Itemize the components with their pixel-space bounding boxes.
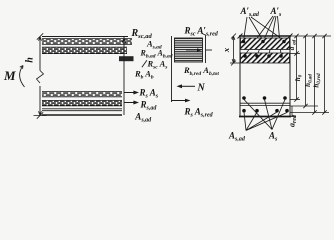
leader fan from As,ad label [244,112,287,131]
beam top edge [42,36,128,38]
top strip 2 : original compression steel [42,47,127,53]
bottom strip 3 : original tension steel [42,92,122,97]
break zigzag on h line [37,71,44,84]
right side extension lines [290,36,331,113]
top strip 1 : additional compression layer [42,39,132,45]
h top arrowhead [37,33,43,40]
old bottom interface double line [240,102,290,104]
section outline [240,36,290,117]
leader fan from A's,ad [244,17,285,41]
anchor line of Rsc A's,red [202,34,206,64]
h bottom arrowhead [34,111,47,118]
dimension line h0,red [312,34,316,115]
tension rebar dots row 2 (As,ad) [242,109,289,113]
leader fan from As label [244,100,285,130]
cut face line [171,36,173,102]
small arrow inside block [186,48,202,52]
beam bottom edge [42,114,122,116]
svg-text:x: x [221,47,231,53]
dimension line h0,ad [303,34,307,108]
black stub of compression bar R_sc As [119,56,134,61]
x dimension (compression depth) on left of section [230,34,240,66]
moment arrow M arc [20,66,25,88]
dimension line h0 [294,34,298,102]
double interface line [42,108,122,110]
force arrow Rs As (tension, original) [124,91,139,95]
corner dimension ticks on top edge [238,34,293,39]
a_red dimension at bottom right [290,106,296,117]
compression band 2 (original zone with A's) [241,53,290,63]
tension rebar dots row 1 (As) [242,96,287,100]
leader fan from A's [245,16,281,55]
svg-text:N: N [197,83,206,94]
N arrow [177,84,196,88]
force arrow Rs,ad As,ad (tension, additional) [124,101,139,105]
leader slash + label Rsc As [142,60,147,67]
Rs As,red arrow [172,99,191,103]
compression stress block [175,38,203,62]
rebar dots band 1 [242,40,286,44]
section cut line (right end of beam) [122,37,125,116]
bottom strip 4 : additional tension steel [42,101,122,106]
svg-text:M: M [3,68,16,83]
dimension line h (vertical) [39,37,41,116]
rebar dots band 2 [243,54,283,58]
dimension line (outermost) [322,34,326,115]
svg-text:h: h [25,57,36,63]
compression band 1 (new layer with A's,ad) [241,38,290,50]
